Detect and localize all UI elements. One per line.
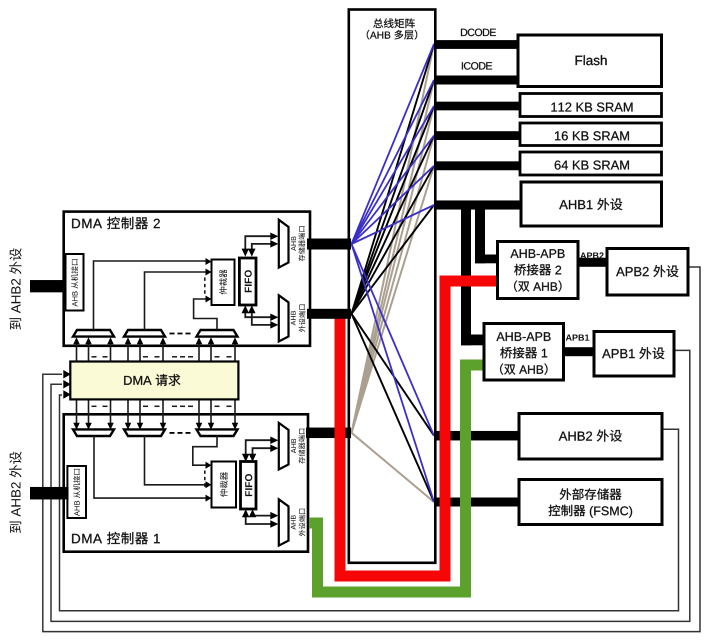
bus to AHB1 peripherals bbox=[434, 200, 522, 209]
label FSMC bbox=[560, 488, 622, 500]
matrix wire DMA2-mem to dcode bbox=[352, 44, 435, 244]
request wire x=76.5 bbox=[76, 343, 78, 362]
label to AHB2 peripherals (lower) bbox=[9, 452, 21, 533]
bus to 112KB SRAM bbox=[434, 102, 521, 111]
stream mux 2 (DMA2) bbox=[124, 330, 165, 337]
matrix wire DMA2-periph to dcode bbox=[352, 44, 435, 314]
label FIFO (DMA2) bbox=[245, 270, 252, 292]
label AHB peripheral port (DMA1) bbox=[291, 509, 306, 537]
label to AHB2 peripherals (upper) bbox=[9, 248, 21, 329]
bus AHB2 slave into DMA2 bbox=[30, 280, 67, 292]
wire mux2 out to arbiter (DMA2) bbox=[145, 272, 206, 330]
wire FIFO-memory port B (DMA2) bbox=[252, 244, 272, 254]
64KB SRAM box bbox=[520, 152, 662, 175]
matrix wire DMA2-periph to ahb1 bbox=[352, 205, 435, 314]
label 112KB SRAM bbox=[551, 103, 632, 112]
wire FIFO-memory port B (DMA1) bbox=[253, 448, 272, 459]
matrix wire DMA1-mem to s112 bbox=[352, 106, 435, 433]
request arrow 3 into DMA request box bbox=[63, 390, 71, 399]
label AHB memory port (DMA1) bbox=[291, 429, 305, 464]
request wire x=235 bbox=[234, 343, 236, 362]
matrix wire DMA2-mem to s64 bbox=[352, 166, 435, 244]
Flash box bbox=[518, 35, 662, 87]
wire mux1 out to arbiter (DMA2) bbox=[94, 261, 206, 330]
wire mux1 out to arbiter (DMA1) bbox=[94, 436, 206, 498]
FSMC box bbox=[519, 480, 662, 525]
dashed continuation into arbiter (DMA1) bbox=[204, 471, 206, 489]
DMA request box bbox=[70, 362, 238, 400]
red path DMA2 peripheral port to AHB-APB bridge 2 bbox=[340, 281, 498, 576]
AHB memory port mux (DMA1) bbox=[279, 423, 289, 470]
label 16KB SRAM bbox=[555, 131, 629, 140]
label Flash bbox=[576, 55, 607, 65]
matrix wire DMA2-mem to icode bbox=[352, 80, 435, 244]
matrix wire DMA2-periph to s64 bbox=[352, 166, 435, 314]
label AHB1 peripherals bbox=[559, 198, 622, 210]
wire FIFO-peripheral port A (DMA2) bbox=[245, 308, 271, 317]
label arbiter (DMA1) bbox=[220, 472, 228, 497]
request wire x=163 bbox=[162, 343, 164, 362]
bus to FSMC bbox=[434, 498, 520, 507]
label ICODE bbox=[462, 62, 492, 70]
bus APB2 bbox=[577, 258, 608, 267]
FIFO box (DMA1) bbox=[241, 462, 257, 510]
request wire x=128 bbox=[127, 343, 129, 362]
matrix wire DMA2-mem to s112 bbox=[352, 106, 435, 244]
request wire x=110.5 bbox=[110, 343, 112, 362]
label DMA controller 2 bbox=[72, 217, 160, 229]
label bus matrix line2 bbox=[367, 30, 417, 40]
label AHB slave interface (DMA1) bbox=[73, 469, 80, 516]
bus to AHB2 peripherals bbox=[434, 431, 520, 441]
stream mux 1 (DMA2) bbox=[73, 330, 114, 337]
matrix wire DMA2-mem to ahb1 bbox=[352, 205, 435, 244]
matrix wire DMA2-mem to ahb2 bbox=[352, 244, 435, 436]
bus DMA2 peripheral port to matrix bbox=[307, 309, 351, 319]
matrix wire DMA2-mem to s16 bbox=[352, 136, 435, 244]
label APB1 peripherals bbox=[602, 347, 664, 359]
wire FIFO-peripheral port A (DMA1) bbox=[246, 511, 272, 524]
wire feedback APB1-periph loop bbox=[51, 350, 690, 621]
bus to 64KB SRAM bbox=[434, 161, 521, 170]
label AHB slave interface (DMA2) bbox=[71, 259, 78, 306]
label 64KB SRAM bbox=[555, 161, 629, 170]
APB2 peripherals box bbox=[607, 249, 688, 296]
wire FIFO-peripheral port B (DMA2) bbox=[252, 308, 272, 325]
ellipsis between muxes (DMA2) bbox=[170, 333, 175, 335]
stream mux 1 (DMA1) bbox=[73, 429, 114, 436]
wire FIFO-memory port A (DMA1) bbox=[246, 440, 272, 459]
matrix wire DMA1-mem to dcode bbox=[352, 44, 435, 433]
bus drop AHB1 to bridge2 bbox=[475, 205, 485, 263]
matrix wire DMA1-mem to s64 bbox=[352, 166, 435, 433]
matrix wire DMA2-periph to s16 bbox=[352, 136, 435, 314]
AHB peripheral port mux (DMA2) bbox=[279, 295, 289, 341]
dashed continuation into arbiter (DMA2) bbox=[204, 278, 206, 295]
wire mux3 out to arbiter (DMA1) bbox=[193, 436, 217, 465]
label DCODE bbox=[461, 29, 496, 36]
stream mux 3 (DMA1) bbox=[197, 429, 238, 436]
bus to 16KB SRAM bbox=[434, 131, 521, 140]
request wire x=199 bbox=[198, 343, 200, 362]
stream mux 3 (DMA2) bbox=[197, 330, 238, 337]
arbiter box (DMA1) bbox=[212, 462, 237, 508]
label AHB peripheral port (DMA2) bbox=[291, 305, 306, 333]
ellipsis between muxes (DMA1) bbox=[170, 432, 175, 434]
arbiter box (DMA2) bbox=[212, 260, 235, 306]
label APB2 bbox=[580, 252, 603, 258]
label APB1 bbox=[566, 335, 590, 341]
bus DMA1 memory port to matrix bbox=[306, 428, 351, 439]
label AHB memory port (DMA2) bbox=[291, 226, 305, 261]
request ellipsis dashes bbox=[92, 356, 97, 358]
matrix wire DMA1-mem to icode bbox=[352, 80, 435, 433]
matrix wire DMA2-periph to s112 bbox=[352, 106, 435, 314]
matrix wire DMA2-periph to ahb2 bbox=[352, 314, 435, 436]
label AHB-APB bridge 1 bbox=[496, 332, 550, 341]
green path DMA1 peripheral port to AHB-APB bridge 1 bbox=[309, 365, 485, 592]
AHB slave interface box (DMA2) bbox=[66, 254, 84, 311]
label FIFO (DMA1) bbox=[245, 474, 252, 496]
label bus matrix line1 bbox=[373, 18, 415, 28]
matrix wire DMA1-mem to fsmc bbox=[352, 433, 435, 502]
label DMA controller 1 bbox=[72, 532, 160, 544]
matrix wire DMA2-periph to fsmc bbox=[352, 314, 435, 502]
matrix wire DMA1-mem to s16 bbox=[352, 136, 435, 433]
label AHB2 peripherals bbox=[559, 430, 622, 442]
label DMA request bbox=[124, 374, 180, 386]
AHB slave interface box (DMA1) bbox=[67, 466, 86, 518]
bus matrix box fill bbox=[349, 10, 436, 563]
request arrow 2 into DMA request box bbox=[63, 380, 71, 389]
wire mux3 out to arbiter (DMA2) bbox=[194, 299, 217, 330]
bus DCODE bbox=[434, 40, 519, 49]
bus DMA2 memory port to matrix bbox=[307, 239, 351, 250]
APB1 peripherals box bbox=[594, 332, 674, 377]
wire FIFO-memory port A (DMA2) bbox=[245, 236, 271, 254]
request wire x=140 bbox=[139, 343, 141, 362]
stream mux 2 (DMA1) bbox=[124, 429, 165, 436]
request arrow 1 into DMA request box bbox=[63, 370, 71, 379]
wire feedback AHB2-periph loop bbox=[60, 395, 679, 611]
DMA controller 2 box bbox=[64, 212, 310, 346]
bus matrix border bbox=[349, 10, 436, 563]
AHB1 peripherals box bbox=[521, 182, 662, 226]
request wire x=88.5 bbox=[88, 343, 90, 362]
bus AHB2 slave into DMA1 bbox=[30, 487, 69, 500]
request wire x=211 bbox=[210, 343, 212, 362]
bus APB1 bbox=[563, 347, 596, 356]
112KB SRAM box bbox=[520, 94, 662, 117]
wire feedback APB2-periph loop bbox=[43, 267, 700, 632]
label APB2 peripherals bbox=[616, 265, 678, 277]
matrix wire DMA2-mem to fsmc bbox=[352, 244, 435, 502]
wire FIFO-peripheral port B (DMA1) bbox=[253, 511, 272, 516]
DMA controller 1 box bbox=[64, 414, 308, 551]
AHB-APB bridge 1 box bbox=[484, 324, 564, 381]
16KB SRAM box bbox=[520, 123, 662, 146]
label arbiter (DMA2) bbox=[219, 270, 227, 295]
AHB peripheral port mux (DMA1) bbox=[279, 499, 289, 545]
bus drop AHB1 to bridge1 bbox=[461, 205, 471, 345]
bus ICODE bbox=[434, 76, 519, 85]
AHB-APB bridge 2 box bbox=[498, 242, 579, 299]
label AHB-APB bridge 2 bbox=[510, 249, 564, 258]
AHB memory port mux (DMA2) bbox=[279, 220, 289, 268]
FIFO box (DMA2) bbox=[239, 258, 256, 305]
matrix wire DMA2-periph to icode bbox=[352, 80, 435, 314]
wire mux2 out to arbiter (DMA1) bbox=[145, 436, 206, 485]
AHB2 peripherals box bbox=[519, 414, 662, 460]
